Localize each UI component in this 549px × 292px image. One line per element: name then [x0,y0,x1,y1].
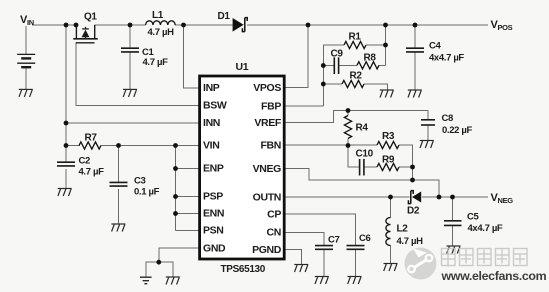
wire: rail L1 to D1 [175,24,232,26]
svg-text:4.7 µH: 4.7 µH [397,236,424,247]
wire: C2 stems [65,146,67,162]
resistor R2 [342,80,364,87]
node: R4 top [346,108,351,113]
node: R1 right [383,43,388,48]
wire: C9 left lead [323,65,334,67]
wire: VREF pin wire with jog [286,111,429,123]
wire: R4 bottom lead [347,139,349,146]
battery V_IN [17,54,35,67]
node: VNEG feedback [410,178,415,183]
svg-text:C9: C9 [331,49,344,60]
svg-text:VREF: VREF [254,117,282,129]
watermark chinese glyph blocks [442,249,528,267]
svg-text:C7: C7 [328,235,340,246]
wire: GND pin wire [159,248,199,262]
wire: Q1 gate lead to BSW [76,43,199,106]
svg-text:BSW: BSW [203,100,227,112]
wire: ENP stub [176,168,199,170]
node: L2 top [388,195,393,200]
wire: R1/R8 right vertical from rail [385,25,387,65]
svg-text:TPS65130: TPS65130 [221,264,266,275]
node: rail/R1 network [383,23,388,28]
svg-text:4.7 µF: 4.7 µF [143,57,169,68]
wire: C5 stems [452,197,454,220]
wire: R7 right lead to VIN pin [101,145,199,147]
node: rail/C1 [128,23,133,28]
svg-text:INN: INN [203,117,220,129]
wire: CP pin wire to C6 [286,214,356,245]
svg-text:C2: C2 [79,156,91,167]
watermark logo circle [405,248,437,280]
node: R9 right [410,165,415,170]
op-amp U1 IC box TPS65130 [200,76,285,259]
diode D2 [408,191,421,204]
wire: FBN pin wire [286,144,378,146]
capacitor C7 [315,246,333,250]
ground (R2) [380,90,394,98]
wire: VIN top rail segment 1 [32,24,76,26]
wire: ENP/PSP/ENN/PSN riser [175,146,177,231]
wire: GND right arm to chassis [159,262,173,277]
svg-text:4x4.7 µF: 4x4.7 µF [429,53,464,64]
svg-text:PSN: PSN [203,225,224,237]
node: ENP [173,166,178,171]
node: rail/C4 [413,23,418,28]
svg-text:PGND: PGND [252,244,282,256]
wire: R3 right lead + vertical to VNEG node [399,145,413,180]
wire: R4 top lead [347,111,349,116]
svg-text:R1: R1 [349,32,362,43]
wire: PGND pin wire [286,250,302,265]
ground (C5) [447,246,461,254]
wire: INN pin wire [66,122,199,124]
svg-text:4.7 µF: 4.7 µF [79,167,105,178]
ground (PGND pin) [294,265,308,273]
ground (GND pin, chassis) [166,277,180,285]
wire: ENN stub [176,213,199,215]
capacitor C3 [110,182,128,186]
node: PSP [173,194,178,199]
svg-text:R3: R3 [382,131,395,142]
node: C5 branch [450,195,455,200]
svg-text:C4: C4 [429,41,442,52]
capacitor C6 [347,246,365,250]
inductor L1 [146,21,176,25]
svg-text:OUTN: OUTN [253,191,281,203]
wire: PSP stub [176,196,199,198]
svg-text:0.22 µF: 0.22 µF [442,125,473,136]
svg-text:C3: C3 [134,176,146,187]
svg-text:D2: D2 [407,206,420,217]
svg-text:R7: R7 [85,133,98,144]
ground (battery) [19,89,33,97]
resistor R9 [377,163,399,170]
ground (GND pin, earth) [140,277,152,284]
svg-text:FBP: FBP [261,100,281,112]
wire: INP riser [184,25,199,88]
ground (C1) [123,89,137,97]
capacitor C9 [334,57,338,74]
wire: R1 left lead + FBP vertical [323,45,344,106]
wire: C6 stem to ground [355,250,357,276]
capacitor C4 [406,48,424,52]
capacitor C8 [421,120,435,125]
svg-text:INP: INP [203,82,220,94]
wire: OUTN pin wire [286,196,410,198]
node: rail/INP [181,23,186,28]
capacitor C1 [121,48,139,52]
svg-text:C6: C6 [359,233,371,244]
wire: VNEG rail right of D2 [422,196,488,198]
wire: R9 right lead [399,166,413,168]
svg-text:U1: U1 [236,61,249,73]
wire: feedback node to VNEG rail [413,180,440,197]
svg-text:VPOS: VPOS [253,82,281,94]
node: ENN [173,211,178,216]
resistor R4 [344,116,351,139]
svg-text:R9: R9 [382,155,395,166]
capacitor C5 [444,221,462,226]
wire: GND left arm to earth [146,262,159,277]
ground (C7) [315,277,329,285]
wire: rail D1 to VPOS [247,24,488,26]
inductor L2 [386,218,391,246]
svg-text:www.elecfans.com: www.elecfans.com [441,269,547,283]
wire: C3 stems [118,146,120,182]
wire: INN/R7 vertical from rail [65,25,67,146]
wire: R1 right lead [366,44,386,46]
svg-text:C8: C8 [442,113,454,124]
node: GND split [156,260,161,265]
wire: C7 stem to ground [323,250,325,276]
wire: R2 right lead to ground [364,84,388,90]
diode D1 [233,18,248,32]
wire: rail Q1 to L1 [95,24,146,26]
svg-text:R2: R2 [350,71,363,82]
wire: L2 bottom stem [390,246,392,264]
node: ENP riser top [173,143,178,148]
wire: C10-R9 link [364,166,377,168]
svg-text:ENP: ENP [203,163,224,175]
wire: C1 stems [129,25,131,48]
wire: PSN stub [176,230,199,232]
svg-text:L2: L2 [397,224,409,235]
svg-text:PSP: PSP [203,191,223,203]
svg-text:ENN: ENN [203,208,224,220]
transistor Q1 [73,25,97,43]
wire: FBP pin wire [286,105,324,107]
svg-text:FBN: FBN [260,139,281,151]
node: R2 left [321,82,326,87]
svg-text:R8: R8 [364,53,377,64]
ground (C6) [348,277,362,285]
node: rail/Q1 source [74,23,79,28]
svg-text:R4: R4 [356,123,369,134]
svg-text:0.1 µF: 0.1 µF [134,187,160,198]
wire: VNEG pin wire jog [286,169,413,181]
wire: C9-R8 link [339,64,357,66]
svg-text:GND: GND [203,243,226,255]
ground (L2) [384,264,398,272]
svg-text:C10: C10 [356,149,374,160]
node: rail/VPOS pin [306,23,311,28]
wire: C10 branch drop [348,146,359,168]
svg-text:CP: CP [267,208,281,220]
node: rail/INN branch [64,23,69,28]
svg-text:CN: CN [267,227,281,239]
resistor R3 [377,141,399,148]
capacitor C2 [57,162,75,166]
svg-text:C5: C5 [467,212,480,223]
svg-text:D1: D1 [218,11,231,22]
ground (C2) [58,189,72,197]
wire: VPOS pin riser [286,25,309,88]
capacitor C10 [360,159,364,176]
svg-text:VIN: VIN [203,140,219,152]
node: C9 left [321,63,326,68]
wire: L2 top stem [390,197,392,218]
resistor R1 [344,41,366,48]
svg-text:Q1: Q1 [84,12,97,23]
resistor R7 [79,142,101,149]
wire: C8 stem to ground [427,125,429,141]
svg-text:4x4.7 µF: 4x4.7 µF [468,223,503,234]
wire: CN pin wire to C7 [286,232,325,244]
wire: R7 left lead [66,145,80,147]
svg-text:L1: L1 [152,10,164,21]
node: INN wire [64,121,69,126]
ground (C4) [408,90,422,98]
node: C3 branch [116,143,121,148]
node: D2 anode / rail [437,195,442,200]
wire: R8 right lead [379,64,386,66]
ground (C3) [111,224,125,232]
wire: R2 left lead [323,83,342,85]
ground (C8) [420,141,434,149]
resistor R8 [357,62,379,69]
node: R7/C2 [64,143,69,148]
wire: battery stem bottom to ground [25,68,27,90]
wire: C4 stems [414,25,416,48]
svg-text:VNEG: VNEG [253,163,282,175]
svg-text:4.7 µH: 4.7 µH [148,27,175,38]
wire: battery stem top [25,26,27,54]
node: R4 bottom / FBN [346,143,351,148]
